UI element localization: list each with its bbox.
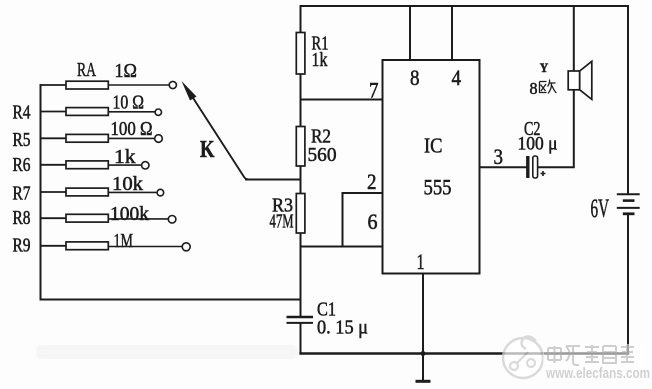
555 label [424, 175, 452, 200]
IC label [424, 134, 443, 158]
wire C2 to speaker branch [539, 90, 574, 167]
pin 8 label [410, 65, 420, 90]
pin 4 label [452, 65, 462, 90]
svg-text:0. 15 μ: 0. 15 μ [317, 317, 368, 339]
svg-text:2: 2 [367, 169, 377, 194]
svg-text:7: 7 [369, 78, 379, 103]
pin 1 label [417, 249, 425, 274]
wire speaker to top rail [573, 6, 575, 71]
svg-text:K: K [200, 137, 215, 163]
svg-text:1: 1 [417, 249, 425, 274]
resistor R6 row 4 [13, 146, 150, 176]
capacitor C2 electrolytic [518, 118, 558, 178]
ground [416, 380, 431, 383]
wire pin4 to rail [451, 6, 453, 60]
wire battery minus to bottom bus [627, 215, 629, 354]
wire R1 bottom to R2 top [300, 74, 302, 127]
svg-text:3: 3 [494, 144, 504, 169]
svg-text:1k: 1k [312, 49, 328, 71]
svg-text:R8: R8 [13, 207, 31, 229]
svg-text:R7: R7 [13, 183, 31, 205]
wire top supply rail [301, 5, 629, 7]
resistor R1 [296, 33, 328, 75]
wire pin1 to ground bus [422, 274, 424, 354]
resistor R7 row 5 [13, 173, 164, 205]
svg-text:10k: 10k [112, 173, 143, 195]
svg-text:www.elecfans.com: www.elecfans.com [545, 366, 650, 382]
resistor R4 row 2 [13, 92, 162, 124]
wire switch common to R2-R3 junction [246, 179, 301, 181]
svg-text:1M: 1M [114, 230, 134, 252]
wire rail to R1 top [300, 6, 302, 33]
wire pin6 [301, 246, 383, 248]
pin 2 label [367, 169, 377, 194]
op-amp U1 IC 555 box [383, 60, 480, 274]
pin 6 label [368, 209, 378, 234]
wire top rail to battery plus [627, 6, 629, 194]
svg-text:R5: R5 [13, 129, 31, 151]
resistor R3 [270, 194, 305, 234]
resistor R5 row 3 [13, 118, 163, 151]
svg-text:1k: 1k [114, 146, 136, 168]
resistor R9 row 7 [13, 230, 191, 257]
wire pin7 [301, 99, 383, 101]
battery 6V [591, 194, 640, 223]
capacitor C1 [287, 299, 369, 339]
svg-text:100k: 100k [110, 203, 149, 225]
svg-text:R6: R6 [13, 154, 31, 176]
wire resistor bank bottom bus [41, 299, 301, 301]
resistor R2 [296, 126, 336, 167]
svg-text:R4: R4 [13, 102, 31, 124]
svg-text:8: 8 [410, 65, 420, 90]
wire pin3 [480, 166, 527, 168]
svg-text:4: 4 [452, 65, 462, 90]
svg-text:1Ω: 1Ω [115, 60, 138, 82]
pin 7 label [369, 78, 379, 103]
svg-text:47M: 47M [270, 211, 294, 233]
wire ground stem [422, 354, 424, 381]
svg-text:Y: Y [540, 60, 549, 75]
svg-text:100 μ: 100 μ [518, 134, 558, 155]
svg-text:555: 555 [424, 175, 452, 200]
svg-text:6V: 6V [591, 194, 610, 223]
wire resistor bank left bus [40, 85, 42, 300]
wire bottom ground bus [301, 352, 629, 354]
pin 3 label [494, 144, 504, 169]
watermark text [543, 344, 650, 382]
speaker Y 8ohm [530, 60, 592, 99]
svg-text:R9: R9 [13, 235, 31, 257]
watermark logo [503, 336, 543, 378]
resistor RA row 1 [41, 59, 177, 89]
svg-text:10 Ω: 10 Ω [113, 92, 145, 114]
wire R2 bottom to R3 top [300, 166, 302, 194]
svg-text:100 Ω: 100 Ω [111, 118, 153, 140]
node junction pin1/ground bus [421, 351, 426, 356]
wire C1 bottom to ground bus [300, 324, 302, 354]
svg-text:560: 560 [308, 144, 337, 166]
scan artifact band (decorative) [36, 345, 298, 359]
svg-text:8: 8 [530, 79, 538, 98]
svg-text:RA: RA [77, 59, 96, 81]
svg-text:6: 6 [368, 209, 378, 234]
switch K arrow [182, 81, 249, 180]
resistor R8 row 6 [13, 203, 176, 229]
svg-text:IC: IC [424, 134, 443, 158]
wire R3 bottom to C1 top [300, 233, 302, 316]
wire pin2 [343, 193, 383, 247]
wire pin8 to rail [409, 6, 411, 60]
